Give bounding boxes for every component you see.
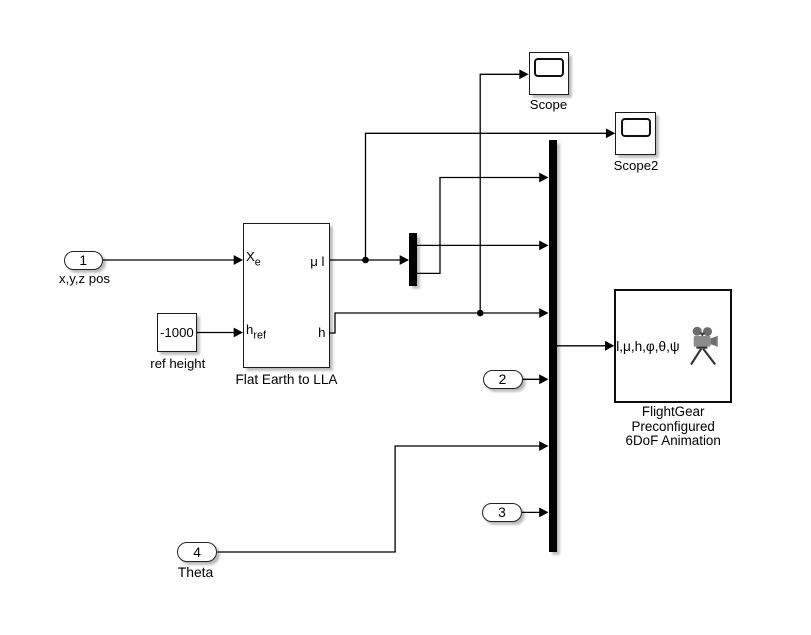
wire inport2 to mux input4 [523, 378, 540, 380]
label x,y,z pos [59, 271, 110, 286]
port mu l [310, 255, 324, 268]
node junction on h wire [477, 310, 484, 317]
inport 2 [483, 370, 523, 389]
inport 4 [177, 542, 218, 562]
constant -1000 [157, 313, 197, 353]
label Scope2 [614, 158, 659, 173]
port h_ref [246, 323, 266, 341]
port h [318, 326, 325, 339]
wire mux output to FlightGear [557, 345, 605, 347]
scope screen [534, 58, 564, 77]
inport 3 [482, 503, 522, 522]
wire inport1 to Xe [103, 259, 234, 261]
scope block Scope [529, 52, 570, 95]
demux D1 [409, 233, 417, 286]
FlightGear block [614, 289, 732, 403]
wire demux out2 to mux input1 [417, 178, 540, 274]
wire h output to mux input3 [330, 313, 540, 333]
node junction on mu-l wire [362, 257, 369, 264]
wire inport3 to mux input6 [522, 511, 540, 513]
port Xe [246, 250, 261, 268]
wire mu-l output to demux [330, 259, 400, 261]
label ref height [150, 356, 205, 371]
wire demux out1 to mux input2 [417, 244, 540, 246]
Flat Earth to LLA block U1 [243, 223, 330, 369]
label Theta [178, 564, 214, 580]
wire inport4 Theta to mux input5 [218, 446, 540, 552]
scope screen [621, 118, 651, 137]
scope block Scope2 [615, 112, 656, 155]
wire constant to href [197, 332, 235, 334]
port l,mu,h,phi,theta,psi [616, 340, 679, 354]
label Scope [530, 97, 567, 112]
camera icon [690, 326, 722, 368]
label FlightGear [626, 405, 721, 450]
wire branch to Scope2 [366, 133, 607, 260]
wire branch to Scope [480, 74, 519, 313]
inport 1 [64, 251, 104, 270]
mux M1 [549, 140, 557, 552]
label Flat Earth to LLA [235, 372, 337, 387]
